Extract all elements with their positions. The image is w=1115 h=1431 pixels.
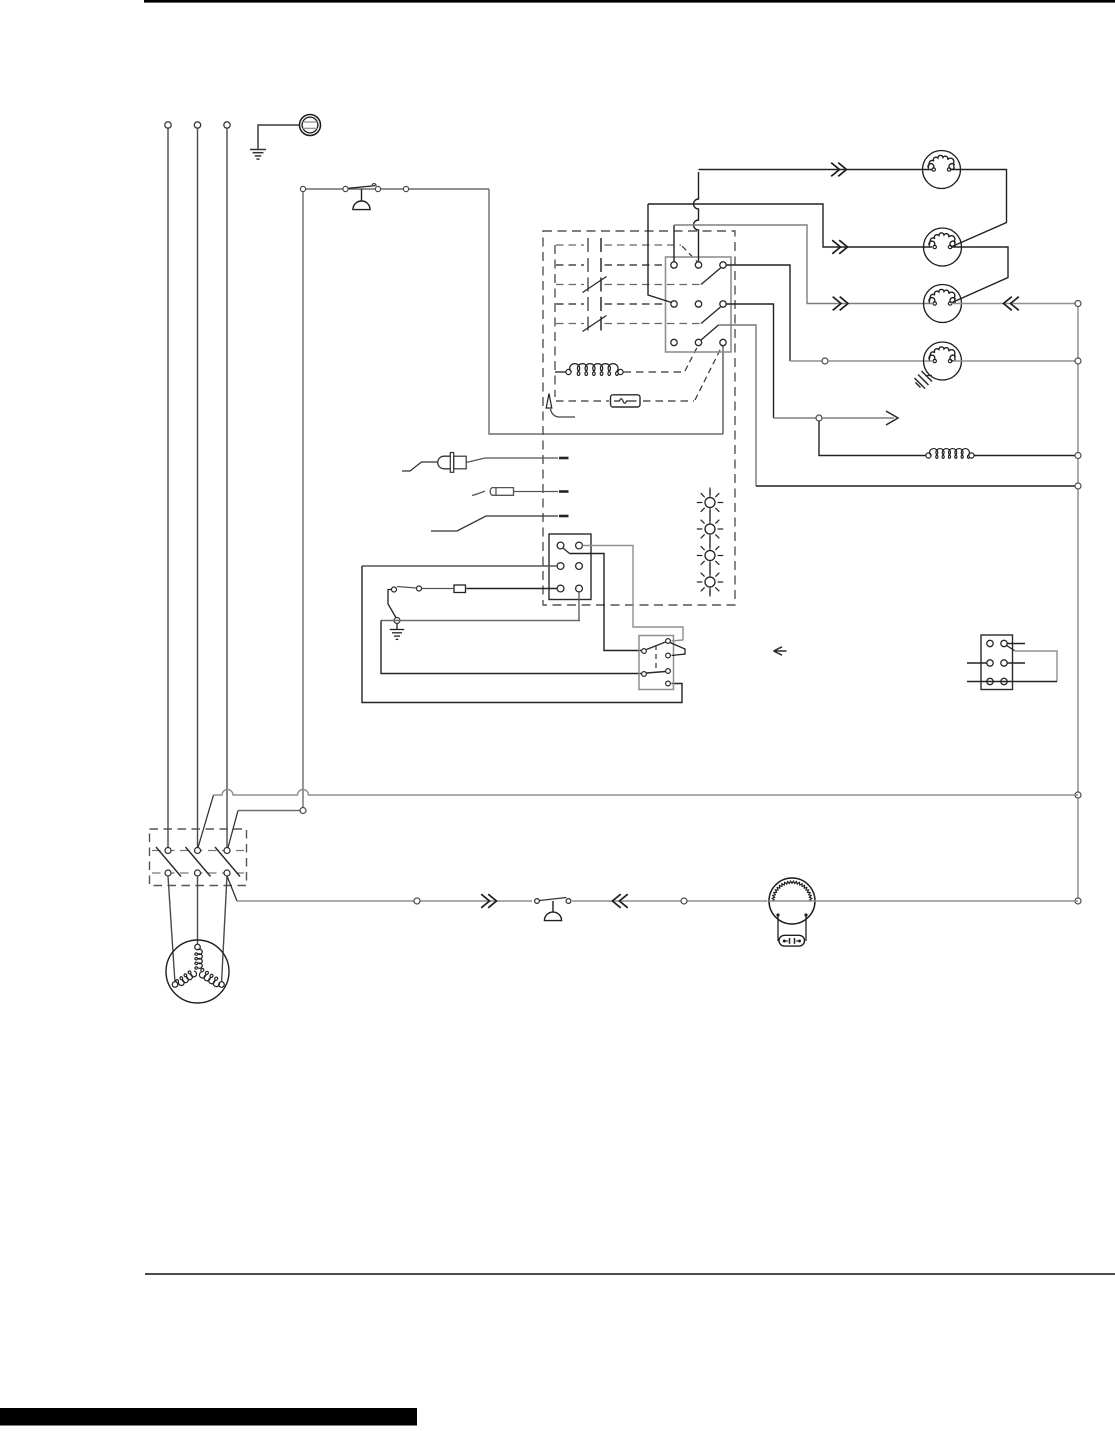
program contact row 5 NC slash bbox=[583, 316, 607, 332]
contactor pole 3 bottom pin bbox=[224, 870, 230, 876]
thermal fuse dashed lead left bbox=[556, 400, 609, 402]
wire loop inner bbox=[381, 621, 641, 674]
door switch 2 contact b bbox=[566, 899, 571, 904]
contactor pole 1 top pin bbox=[165, 848, 171, 854]
fan motor M3 bbox=[924, 285, 962, 323]
dashed link fuse to relay pin bbox=[695, 346, 722, 400]
motor M6 terminal a bbox=[776, 913, 779, 916]
relay blade row3 bbox=[701, 325, 719, 340]
program contact row 4 left lead bbox=[556, 303, 584, 305]
wire X1 row2 left bbox=[362, 565, 557, 567]
indicator lamp H2 bbox=[705, 524, 715, 534]
wire W3 to motor M3 bbox=[674, 225, 932, 304]
connector chevron W2 bbox=[832, 240, 840, 254]
wire ground bus bbox=[381, 620, 580, 622]
flame rod body bbox=[490, 488, 513, 496]
run capacitor C1 bbox=[779, 935, 805, 946]
indicator lamp H3 bbox=[705, 551, 715, 561]
relay blade row2 bbox=[701, 307, 721, 324]
wire bus3 b bbox=[572, 900, 768, 902]
switch S2 pin 2 bbox=[666, 639, 671, 644]
wire X2 loop bbox=[1015, 651, 1058, 682]
terminal X1 pin bbox=[557, 542, 564, 549]
supply line L1 terminal bbox=[165, 122, 171, 128]
program contact row 2 bars bbox=[587, 258, 589, 272]
wire M1 to M2 bbox=[951, 170, 1007, 247]
program contact row 1 bars bbox=[587, 238, 589, 252]
switch S2 pin 3 bbox=[666, 653, 671, 658]
wire inductor to rail bbox=[974, 455, 1078, 457]
control unit inner dashed edge bbox=[554, 245, 556, 397]
wire buzzer right rail bbox=[489, 189, 723, 434]
dashed link coil to relay pin bbox=[685, 346, 698, 372]
node right rail y486 bbox=[1075, 483, 1081, 489]
wire M4 to right rail bbox=[953, 360, 1078, 362]
wire relay r1c2 feed (with hops) bbox=[694, 172, 699, 262]
supply line L3 wire bbox=[226, 128, 228, 847]
wire switch to ground node bbox=[388, 590, 397, 619]
motor M5 winding right bbox=[197, 968, 222, 988]
wire motor W bbox=[222, 876, 228, 983]
node buzzer b bbox=[343, 186, 348, 191]
wire bottom link to rail bbox=[756, 485, 1078, 487]
wire buzzer left rail bbox=[302, 192, 304, 808]
program contact row 4 bars bbox=[587, 297, 589, 311]
terminal X2 pin bbox=[987, 660, 993, 666]
heater hatching at M4 bbox=[927, 375, 933, 377]
wire bus3 a bbox=[237, 900, 532, 902]
relay blade row1 bbox=[701, 268, 721, 285]
thermostat switch contact a bbox=[392, 587, 397, 592]
terminal X2 pin bbox=[987, 640, 993, 646]
buzzer 2 bbox=[552, 901, 554, 912]
motor M5 terminal left bbox=[172, 982, 178, 988]
fan motor M4 bbox=[924, 342, 962, 380]
connector chevron M3-rail bbox=[1011, 297, 1019, 311]
thermostat switch contact b bbox=[417, 586, 422, 591]
terminal X2 pin bbox=[1001, 678, 1007, 684]
fan motor M1 bbox=[923, 151, 961, 189]
ground G2 bbox=[390, 629, 405, 631]
wire X1 bottom-right down bbox=[578, 592, 580, 621]
wire W1 to motor M1 bbox=[699, 169, 933, 171]
terminal X2 pin bbox=[1001, 660, 1007, 666]
terminal X2 pin bbox=[1001, 640, 1007, 646]
fan motor M2 bbox=[924, 228, 962, 266]
wire X2 r3 bbox=[967, 681, 1057, 683]
switch S2 blade b bbox=[647, 672, 666, 674]
switch S2 box bbox=[639, 636, 674, 690]
wire M4 row bbox=[828, 360, 932, 362]
wire X1 to switch S2 a bbox=[570, 554, 642, 651]
node right rail y303 bbox=[1075, 301, 1081, 307]
switch S2 pin 4 bbox=[642, 672, 647, 677]
contactor pole 2 blade bbox=[186, 847, 211, 877]
contactor pole 1 blade bbox=[156, 847, 181, 877]
wire relay r3 out bbox=[719, 325, 757, 486]
node right rail y901 bbox=[1075, 898, 1081, 904]
supply line L3 terminal bbox=[224, 122, 230, 128]
wire to thermostat switch bbox=[422, 588, 454, 590]
contactor K2 dashed box bbox=[150, 829, 247, 886]
terminal X2 pin bbox=[987, 678, 993, 684]
motor M5 terminal right bbox=[219, 982, 225, 988]
contactor pole 3 top pin bbox=[224, 848, 230, 854]
relay pin r2c3 bbox=[720, 301, 726, 307]
motor M6 terminal b bbox=[804, 913, 807, 916]
motor M6 winding arc bbox=[772, 881, 812, 902]
program contact row 2 right lead bbox=[605, 264, 666, 266]
terminal X1 pin bbox=[576, 563, 583, 570]
program contact row 2 left lead bbox=[556, 264, 584, 266]
terminal X1 pin bbox=[576, 542, 583, 549]
node bus3 b bbox=[681, 898, 687, 904]
relay contact block bbox=[666, 257, 732, 352]
inductor left terminal bbox=[926, 453, 931, 458]
supply line L2 terminal bbox=[194, 122, 200, 128]
contactor pole 1 bottom pin bbox=[165, 870, 171, 876]
wire relay r2c3 down bbox=[726, 304, 774, 418]
flame rod lead bbox=[472, 491, 485, 496]
wire arrow row bbox=[774, 417, 817, 419]
wire to relay pin bbox=[722, 345, 724, 434]
motor M5 terminal top bbox=[195, 944, 201, 950]
relay pin r3c3 bbox=[720, 339, 726, 345]
node arrow row bbox=[816, 415, 822, 421]
wire bus1 (with hops) bbox=[214, 790, 1079, 796]
bottom rule bbox=[145, 1273, 1115, 1275]
switch S2 dashed link bbox=[655, 645, 657, 671]
wire bus3 through M6 bbox=[769, 900, 815, 902]
wire X2 r1 stub bbox=[1007, 643, 1025, 645]
motor M5 winding left bbox=[175, 968, 197, 987]
lamp column wire bbox=[709, 488, 711, 597]
node right rail y455 bbox=[1075, 453, 1081, 459]
igniter body bbox=[438, 456, 451, 469]
program contact row 3 NC slash bbox=[583, 277, 607, 293]
relay pin r1c2 bbox=[695, 262, 701, 268]
wire PE bbox=[258, 125, 299, 149]
wire bus2 diag bbox=[228, 811, 238, 848]
igniter lead bbox=[402, 462, 438, 471]
wire contactor to bus3 bbox=[227, 876, 237, 901]
switch S2 pin 5 bbox=[666, 669, 671, 674]
relay pin r2c2 bbox=[695, 301, 701, 307]
relay pin r3c1 bbox=[671, 339, 677, 345]
switch S2 pin 6 bbox=[666, 681, 671, 686]
wire M6 capacitor a bbox=[777, 915, 779, 941]
blade X1 bbox=[563, 548, 570, 554]
resistor R1 bbox=[454, 585, 466, 593]
buzzer bbox=[361, 189, 363, 201]
connector chevron W1 bbox=[831, 163, 839, 177]
switch S2 jumper bbox=[670, 643, 685, 656]
wire bus3 c bbox=[815, 900, 1078, 902]
node buzzer c bbox=[375, 186, 380, 191]
program contact row 3 right lead bbox=[605, 284, 701, 286]
program contact row 1 left lead bbox=[556, 244, 584, 246]
wire relay r2c1 feed bbox=[648, 204, 672, 303]
program contact row 5 left lead bbox=[556, 323, 584, 325]
right rail bbox=[1077, 304, 1079, 902]
relay pin r3c2 bbox=[695, 339, 701, 345]
wire M4 row left bbox=[790, 360, 822, 362]
connector chevron W3 bbox=[833, 297, 841, 311]
relay pin r1c3 bbox=[720, 262, 726, 268]
wire loop left outer bbox=[362, 566, 682, 703]
compressor motor M5 body bbox=[166, 940, 229, 1003]
ground G2 stem bbox=[396, 624, 398, 630]
node ground bbox=[394, 618, 400, 624]
wire X2 r1 diagonal bbox=[1007, 646, 1015, 651]
program contact row 3 left lead bbox=[556, 284, 584, 286]
wire arrow row 2 bbox=[822, 417, 894, 419]
contactor pole 2 bottom pin bbox=[195, 870, 201, 876]
flame sensor symbol bbox=[546, 394, 552, 409]
node bus2 bbox=[300, 808, 306, 814]
contactor pole 2 top pin bbox=[195, 848, 201, 854]
indicator lamp H1 bbox=[705, 498, 715, 508]
ground (PE) bbox=[250, 149, 266, 151]
flame rod terminal bbox=[559, 490, 569, 493]
thermostat switch blade bbox=[397, 587, 416, 589]
wire buzzer top bbox=[303, 188, 489, 190]
igniter wire bbox=[466, 458, 558, 463]
wire M6 capacitor b bbox=[805, 915, 807, 941]
program contact row 4 right lead bbox=[605, 303, 666, 305]
relay coil K1 left lead bbox=[555, 371, 566, 373]
bottom-left black bar bbox=[0, 1408, 417, 1426]
sensor wire 3 bbox=[431, 516, 558, 531]
supply line L2 wire bbox=[197, 128, 199, 847]
wire relay r1c1 feed bbox=[673, 225, 675, 262]
terminal X1 pin bbox=[557, 563, 564, 570]
terminal X1 pin bbox=[576, 585, 583, 592]
program contact row 1 right lead bbox=[605, 244, 682, 246]
relay coil K1 bbox=[570, 364, 618, 376]
program contact row 5 bars bbox=[587, 317, 589, 331]
left arrow bbox=[774, 647, 787, 655]
supply line L1 wire bbox=[167, 128, 169, 847]
earth terminal symbol bbox=[300, 115, 321, 136]
indicator lamp H4 bbox=[705, 577, 715, 587]
relay pin r1c1 bbox=[671, 262, 677, 268]
node bus3 a bbox=[414, 898, 420, 904]
door switch 2 contact a bbox=[535, 899, 540, 904]
wire W2 to motor M2 bbox=[648, 204, 932, 247]
switch S2 blade a bbox=[647, 642, 666, 650]
relay coil K1 left terminal bbox=[566, 369, 571, 374]
wire bus1 diag bbox=[198, 795, 214, 848]
wire X1 row3 lead bbox=[467, 588, 558, 590]
wire X2 r2 right stub bbox=[1007, 662, 1025, 664]
program contact row 5 right lead bbox=[605, 323, 701, 325]
arrow head bbox=[886, 411, 898, 425]
connector chevron bus3 left bbox=[481, 894, 489, 908]
dashed link row1 to relay pin bbox=[682, 246, 698, 262]
inductor right terminal bbox=[969, 453, 974, 458]
wire bus2 bbox=[238, 810, 300, 812]
thermal cutout F1 bbox=[611, 395, 641, 407]
wire motor U bbox=[168, 876, 175, 983]
program contact row 3 bars bbox=[587, 278, 589, 292]
connector chevron bus3 right bbox=[619, 894, 627, 908]
motor M5 winding top bbox=[195, 949, 202, 969]
node right rail y361 bbox=[1075, 358, 1081, 364]
relay coil K1 right terminal bbox=[618, 369, 623, 374]
condenser fan motor M6 body bbox=[769, 878, 815, 924]
contactor K2 dashed row bottom bbox=[152, 872, 244, 874]
thermal fuse dashed lead right bbox=[643, 400, 694, 402]
wire M2 to M3 bbox=[951, 247, 1008, 303]
door switch blade bbox=[349, 186, 376, 189]
terminal X1 pin bbox=[557, 585, 564, 592]
control unit outer dashed box bbox=[543, 231, 735, 605]
contactor K2 dashed row top bbox=[152, 850, 244, 852]
door switch 2 blade bbox=[540, 898, 567, 901]
sensor terminal 3 bbox=[559, 515, 569, 518]
inductor L1 bbox=[930, 449, 970, 459]
terminal block X2 bbox=[981, 635, 1013, 690]
node M4 row bbox=[822, 358, 828, 364]
wire motor V bbox=[197, 876, 199, 944]
relay coil K1 dashed lead bbox=[624, 371, 685, 373]
terminal block X1 bbox=[549, 534, 591, 600]
relay pin r2c1 bbox=[671, 301, 677, 307]
flame rod wire bbox=[514, 491, 559, 493]
switch S2 pin 1 bbox=[642, 649, 647, 654]
top border rule bbox=[144, 0, 1115, 3]
node right rail y795 bbox=[1075, 792, 1081, 798]
node buzzer a bbox=[300, 186, 305, 191]
node buzzer d bbox=[403, 186, 408, 191]
wire X1 to switch S2 b bbox=[583, 546, 684, 642]
wire relay r1c3 to M4 bbox=[726, 265, 790, 361]
igniter terminal bbox=[559, 457, 569, 460]
wire X2 r2 left stub bbox=[967, 662, 987, 664]
wire M3 to right rail bbox=[951, 303, 1078, 305]
contactor pole 3 blade bbox=[215, 847, 240, 877]
wire to inductor bbox=[819, 421, 926, 456]
